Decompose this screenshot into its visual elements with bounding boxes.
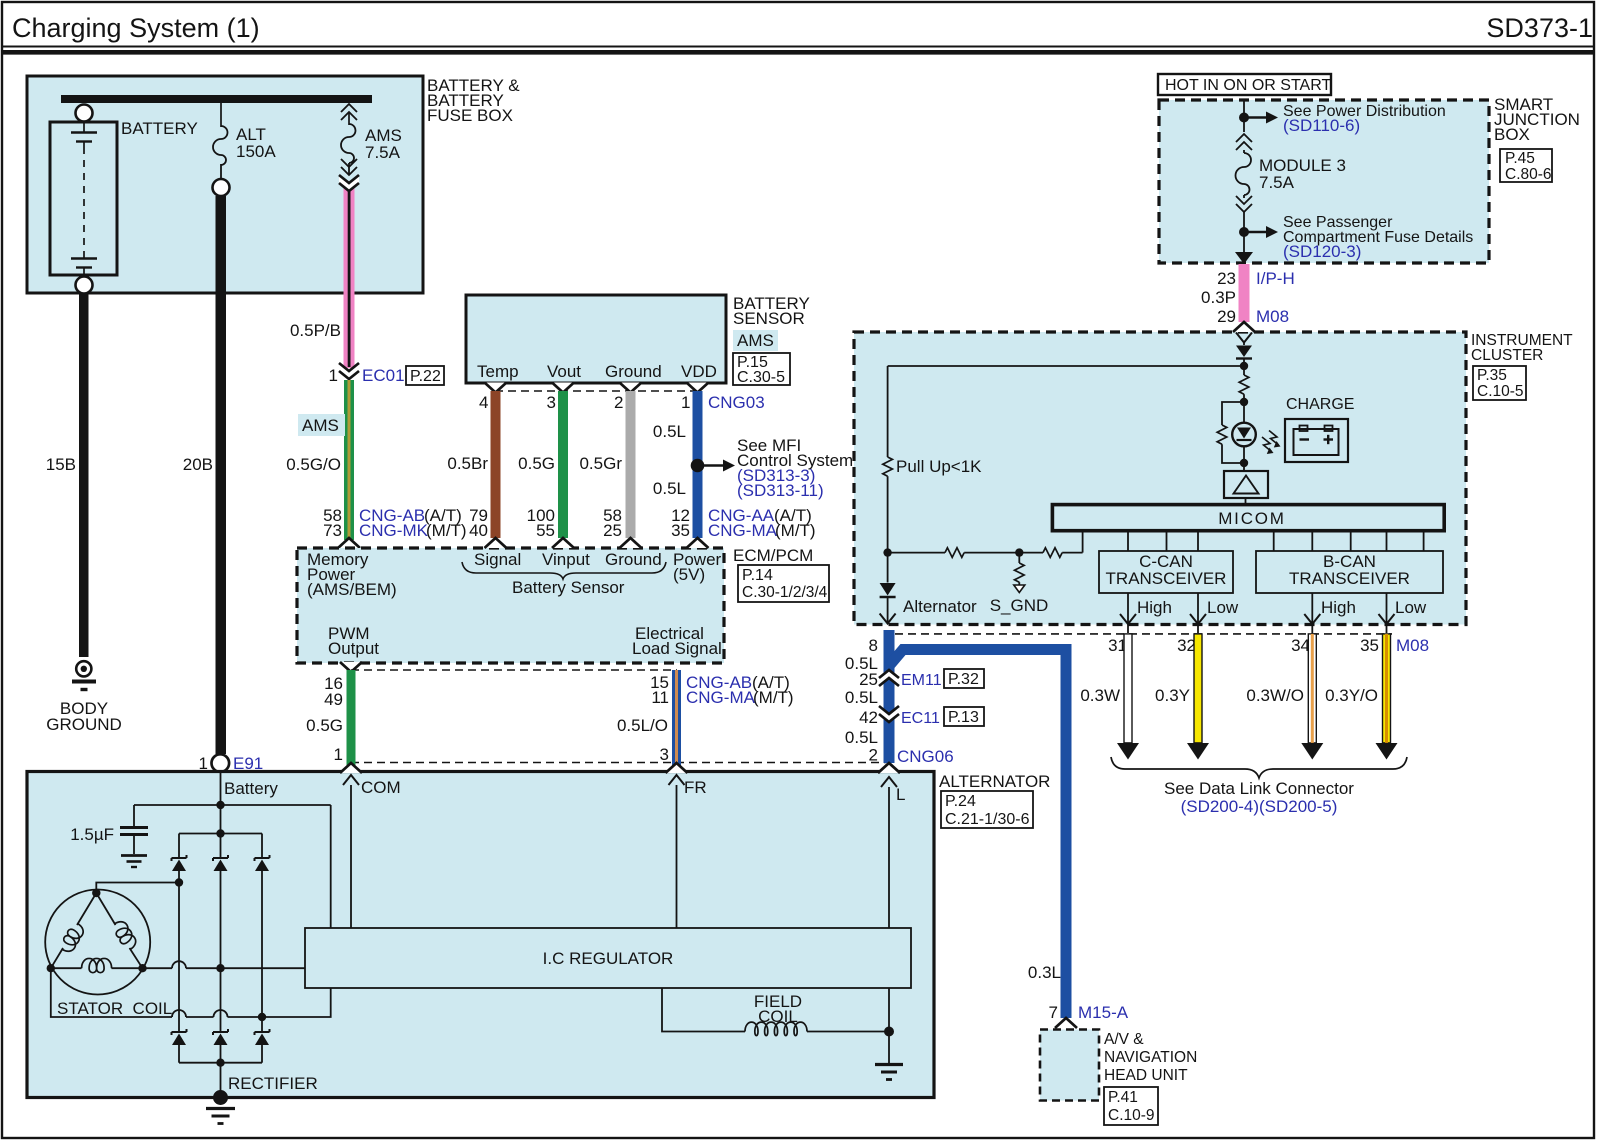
connector EM11: [879, 669, 984, 689]
svg-text:ALTERNATOR: ALTERNATOR: [939, 772, 1050, 791]
svg-text:RECTIFIER: RECTIFIER: [228, 1074, 318, 1093]
svg-text:P.32: P.32: [948, 671, 979, 688]
svg-text:20B: 20B: [183, 455, 213, 474]
svg-text:HOT IN ON OR START: HOT IN ON OR START: [1165, 77, 1331, 94]
battery symbol: [50, 105, 198, 294]
C-CAN transceiver: [1099, 531, 1233, 593]
bus bar: [61, 95, 372, 103]
svg-text:Ground: Ground: [605, 550, 662, 569]
svg-text:High: High: [1137, 598, 1172, 617]
wire 0.5Gr Ground: [579, 391, 635, 538]
connector chevron at AMS fuse outlet: [339, 175, 359, 191]
wire 0.5G Vout: [518, 391, 568, 538]
fuse MODULE 3 7.5A: [1236, 134, 1346, 212]
svg-text:(5V): (5V): [673, 565, 705, 584]
svg-text:CLUSTER: CLUSTER: [1471, 347, 1543, 364]
svg-text:1: 1: [681, 393, 690, 412]
stator phase wire to left column: [96, 883, 179, 894]
wire 0.5L/O electrical load signal: [617, 670, 794, 768]
svg-text:49: 49: [324, 690, 343, 709]
B-CAN transceiver: [1256, 531, 1443, 593]
svg-text:CNG-MK: CNG-MK: [359, 521, 429, 540]
rectifier upper diodes: [172, 855, 187, 871]
svg-text:7: 7: [1049, 1003, 1058, 1022]
svg-text:CNG-MA: CNG-MA: [708, 521, 778, 540]
svg-text:Load Signal: Load Signal: [632, 639, 722, 658]
svg-text:C.30-5: C.30-5: [737, 369, 785, 386]
svg-text:HEAD UNIT: HEAD UNIT: [1104, 1067, 1188, 1084]
cluster input arrow: [1236, 333, 1252, 346]
svg-text:C.30-1/2/3/4: C.30-1/2/3/4: [742, 584, 828, 601]
battery icon: [1285, 419, 1348, 462]
svg-text:11: 11: [651, 688, 669, 707]
svg-text:3: 3: [547, 393, 556, 412]
svg-text:(SD313-11): (SD313-11): [737, 481, 824, 500]
CAN High/Low outputs: [1120, 593, 1427, 633]
svg-text:23: 23: [1217, 269, 1236, 288]
node to MFI control system: [691, 436, 854, 500]
svg-text:0.5L: 0.5L: [653, 422, 686, 441]
svg-text:GROUND: GROUND: [46, 715, 122, 734]
micom to analog line: [883, 531, 1082, 558]
svg-text:0.3W/O: 0.3W/O: [1246, 686, 1304, 705]
svg-text:0.5Br: 0.5Br: [447, 454, 488, 473]
arrow out of SJB: [1235, 252, 1253, 264]
wire 0.5Br Temp: [447, 391, 500, 538]
battery sensor box: [466, 294, 810, 386]
svg-text:M08: M08: [1256, 307, 1289, 326]
ECM/PCM pin rows: [469, 506, 816, 540]
svg-text:(M/T): (M/T): [426, 521, 467, 540]
svg-text:Low: Low: [1207, 598, 1239, 617]
svg-text:Signal: Signal: [474, 550, 521, 569]
svg-text:CNG-MA: CNG-MA: [686, 688, 756, 707]
data link connector brace: [1111, 757, 1407, 816]
svg-text:(SD200-4)(SD200-5): (SD200-4)(SD200-5): [1181, 797, 1338, 816]
resistor above LED: [1239, 375, 1249, 406]
svg-text:I.C REGULATOR: I.C REGULATOR: [543, 949, 674, 968]
svg-text:(M/T): (M/T): [753, 688, 794, 707]
field coil ground node: [875, 1027, 903, 1080]
svg-text:P.13: P.13: [948, 709, 979, 726]
svg-text:M15-A: M15-A: [1078, 1003, 1129, 1022]
pin 2 chevron into alternator: [878, 763, 900, 773]
wire 20B alternator feed: [183, 196, 226, 754]
node charge circuit top: [888, 362, 1249, 375]
svg-text:STATOR COIL: STATOR COIL: [57, 999, 172, 1018]
svg-text:L: L: [896, 785, 905, 804]
svg-text:0.5L/O: 0.5L/O: [617, 716, 668, 735]
fuse ALT 150A: [213, 103, 277, 196]
svg-text:BATTERY: BATTERY: [121, 119, 198, 138]
wire 0.5G/O green-orange AMS to ECM: [286, 380, 466, 548]
svg-text:CNG03: CNG03: [708, 393, 765, 412]
svg-text:BOX: BOX: [1494, 125, 1530, 144]
svg-text:0.3Y/O: 0.3Y/O: [1325, 686, 1378, 705]
stator phase wire to right column and IC regulator: [51, 968, 331, 1017]
A/V &amp; navigation head unit: [1040, 1030, 1197, 1126]
svg-text:SENSOR: SENSOR: [733, 309, 805, 328]
svg-text:34: 34: [1291, 636, 1310, 655]
svg-text:2: 2: [614, 393, 623, 412]
wire 0.3Y C-CAN Low: [1155, 634, 1209, 760]
svg-text:25: 25: [859, 670, 878, 689]
svg-text:7.5A: 7.5A: [365, 143, 401, 162]
svg-text:COIL: COIL: [758, 1007, 798, 1026]
wire 0.3L branch to head unit: [889, 650, 1066, 1019]
svg-text:15B: 15B: [46, 455, 76, 474]
svg-text:ECM/PCM: ECM/PCM: [733, 546, 813, 565]
svg-text:73: 73: [323, 521, 342, 540]
wire 0.3P I/P-H to M08: [1201, 264, 1295, 326]
svg-text:See Data Link Connector: See Data Link Connector: [1164, 779, 1354, 798]
pin COM chevrons: [340, 763, 401, 928]
svg-text:P.35: P.35: [1477, 367, 1507, 384]
rectifier lower diodes: [172, 1029, 187, 1045]
svg-text:(AMS/BEM): (AMS/BEM): [307, 580, 397, 599]
pin L chevrons: [878, 763, 905, 1032]
connector EC11: [879, 706, 984, 727]
svg-text:COM: COM: [361, 778, 401, 797]
wire 15B battery to body ground: [46, 293, 89, 657]
svg-text:EC11: EC11: [901, 710, 940, 727]
svg-text:4: 4: [479, 393, 488, 412]
LED charge indicator: [1232, 402, 1256, 467]
pin 29 chevron into cluster: [1233, 322, 1255, 332]
svg-text:(SD120-3): (SD120-3): [1283, 242, 1361, 261]
pin chevrons into ECM/PCM: [485, 538, 507, 548]
connector CNG06 dashed line: [351, 762, 886, 764]
svg-text:25: 25: [603, 521, 622, 540]
node see power distribution: [1239, 100, 1446, 135]
svg-text:2: 2: [869, 746, 878, 765]
pin FR chevrons: [666, 763, 707, 928]
svg-text:EM11: EM11: [901, 672, 942, 689]
svg-text:0.5L: 0.5L: [653, 479, 686, 498]
stator phase wire to middle column: [143, 961, 306, 968]
body ground: [46, 661, 122, 734]
svg-text:TRANSCEIVER: TRANSCEIVER: [1289, 569, 1410, 588]
capacitor 1.5uF: [70, 805, 148, 867]
rectifier column wires: [175, 871, 266, 1032]
LED light arrows: [1262, 431, 1281, 455]
smart junction box: [1159, 95, 1580, 263]
svg-text:P.22: P.22: [410, 368, 441, 385]
svg-text:P.41: P.41: [1108, 1089, 1138, 1106]
svg-text:P.24: P.24: [945, 793, 976, 810]
svg-text:32: 32: [1177, 636, 1196, 655]
svg-text:(M/T): (M/T): [775, 521, 816, 540]
pin chevron PWM output: [340, 662, 362, 672]
alternator case ground: [206, 1090, 235, 1124]
svg-text:NAVIGATION: NAVIGATION: [1104, 1049, 1197, 1066]
svg-text:0.3L: 0.3L: [1028, 963, 1061, 982]
svg-text:55: 55: [536, 521, 555, 540]
svg-text:SD373-1: SD373-1: [1486, 13, 1593, 43]
svg-text:FUSE BOX: FUSE BOX: [427, 106, 513, 125]
wire 0.5L alternator L blue: [845, 630, 954, 766]
ECM/PCM box: [297, 546, 829, 663]
svg-text:7.5A: 7.5A: [1259, 173, 1295, 192]
svg-text:CHARGE: CHARGE: [1286, 396, 1354, 413]
connector E91: [199, 754, 264, 773]
svg-text:Battery: Battery: [224, 779, 278, 798]
HOT IN ON OR START label: [1158, 74, 1331, 95]
svg-text:Low: Low: [1395, 598, 1427, 617]
svg-text:M08: M08: [1396, 636, 1429, 655]
svg-text:Battery Sensor: Battery Sensor: [512, 578, 625, 597]
node battery junction: [134, 801, 331, 928]
pin chevrons under battery sensor: [485, 383, 507, 393]
fuse AMS 7.5A: [341, 104, 402, 175]
rectifier top rail: [179, 805, 262, 857]
wire 0.3W C-CAN High: [1080, 634, 1139, 760]
pull up resistor: [883, 366, 982, 553]
svg-text:0.3Y: 0.3Y: [1155, 686, 1190, 705]
wire 0.3Y/O B-CAN Low: [1325, 634, 1397, 760]
svg-text:Vout: Vout: [547, 362, 581, 381]
wire 0.3W/O B-CAN High: [1246, 634, 1323, 760]
svg-text:C.10-5: C.10-5: [1477, 383, 1524, 400]
svg-text:0.3P: 0.3P: [1201, 288, 1236, 307]
battery &amp; battery fuse box: [27, 76, 520, 293]
svg-text:High: High: [1321, 598, 1356, 617]
svg-text:0.5G: 0.5G: [306, 716, 343, 735]
diode at cluster input: [1236, 346, 1252, 367]
connector EC01: [329, 363, 444, 385]
svg-text:29: 29: [1217, 307, 1236, 326]
svg-text:I/P-H: I/P-H: [1256, 269, 1295, 288]
svg-text:TRANSCEIVER: TRANSCEIVER: [1106, 569, 1227, 588]
svg-text:Alternator: Alternator: [903, 597, 977, 616]
svg-text:1: 1: [334, 745, 343, 764]
wire 0.5G PWM output: [306, 670, 355, 768]
connector M08 dashed line: [895, 634, 1429, 655]
svg-text:C.10-9: C.10-9: [1108, 1107, 1155, 1124]
svg-text:EC01: EC01: [362, 366, 405, 385]
svg-text:0.5G/O: 0.5G/O: [286, 455, 341, 474]
svg-text:35: 35: [671, 521, 690, 540]
svg-text:42: 42: [859, 708, 878, 727]
svg-text:1: 1: [329, 366, 338, 385]
instrument cluster box: [854, 332, 1573, 625]
connector CNG03 dashed line: [479, 391, 765, 412]
svg-text:Ground: Ground: [605, 362, 662, 381]
svg-text:AMS: AMS: [302, 416, 339, 435]
svg-text:0.5L: 0.5L: [845, 728, 878, 747]
svg-text:P.14: P.14: [742, 567, 773, 584]
alternator signal diode: [880, 553, 977, 624]
svg-text:150A: 150A: [236, 142, 276, 161]
svg-text:VDD: VDD: [681, 362, 717, 381]
field coil: [662, 988, 889, 1036]
svg-text:C.21-1/30-6: C.21-1/30-6: [945, 811, 1030, 828]
IC regulator box: [305, 928, 911, 988]
svg-text:C.80-6: C.80-6: [1505, 166, 1552, 183]
svg-text:0.5L: 0.5L: [845, 688, 878, 707]
svg-text:S_GND: S_GND: [990, 596, 1049, 615]
svg-text:A/V &: A/V &: [1104, 1031, 1144, 1048]
node see passenger compartment fuse details: [1239, 212, 1473, 261]
svg-text:P.45: P.45: [1505, 150, 1535, 167]
stator coil: [45, 889, 172, 1018]
buffer gate: [1224, 467, 1268, 505]
svg-text:0.5G: 0.5G: [518, 454, 555, 473]
svg-text:Temp: Temp: [477, 362, 519, 381]
rectifier bottom rail: [179, 1045, 318, 1098]
svg-text:0.5P/B: 0.5P/B: [290, 321, 341, 340]
svg-text:8: 8: [869, 636, 878, 655]
S_GND branch: [990, 548, 1049, 615]
svg-text:CNG06: CNG06: [897, 747, 954, 766]
connector M15-A: [1049, 1003, 1129, 1028]
svg-text:Pull Up<1K: Pull Up<1K: [896, 457, 982, 476]
connector CNG-AB dashed line: [351, 669, 677, 671]
pin Battery into alternator: [221, 772, 279, 805]
svg-text:(SD110-6): (SD110-6): [1283, 116, 1360, 135]
svg-text:Charging System (1): Charging System (1): [12, 13, 260, 43]
svg-text:AMS: AMS: [737, 331, 774, 350]
svg-text:0.3W: 0.3W: [1080, 686, 1120, 705]
svg-text:0.5Gr: 0.5Gr: [579, 454, 622, 473]
wire 0.5L VDD: [653, 391, 703, 538]
MICOM box: [1052, 505, 1444, 531]
svg-text:FR: FR: [684, 778, 707, 797]
svg-text:1.5µF: 1.5µF: [70, 825, 114, 844]
wire 0.5P/B pink with black tracer: [290, 183, 355, 368]
svg-text:3: 3: [660, 745, 669, 764]
alternator box: [27, 772, 1050, 1098]
svg-text:Output: Output: [328, 639, 379, 658]
svg-text:35: 35: [1360, 636, 1379, 655]
LED parallel resistor branch: [1217, 402, 1244, 463]
svg-text:MICOM: MICOM: [1218, 509, 1286, 528]
svg-text:40: 40: [469, 521, 488, 540]
svg-text:Vinput: Vinput: [542, 550, 590, 569]
